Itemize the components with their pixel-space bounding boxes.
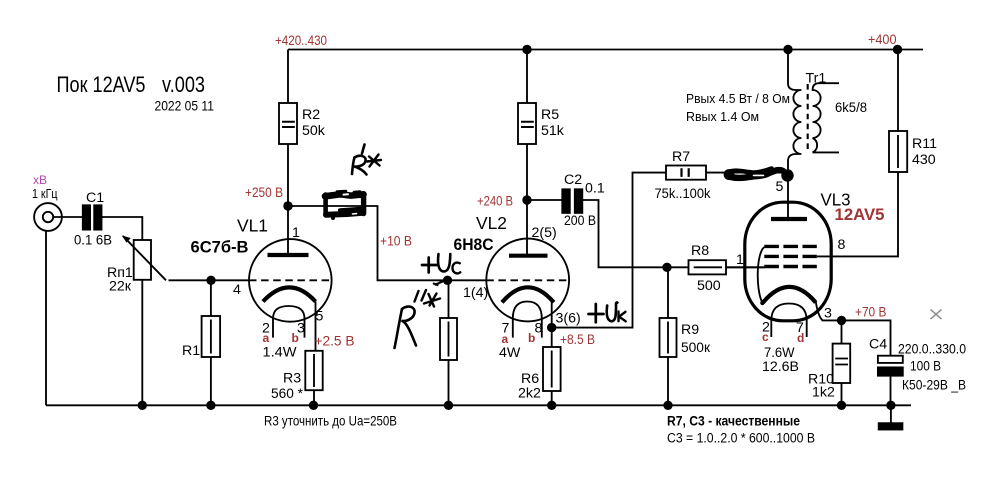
ground symbol	[879, 405, 903, 429]
resistor R5	[518, 50, 536, 201]
svg-text:Рвых 4.5 Вт / 8 Ом: Рвых 4.5 Вт / 8 Ом	[686, 91, 790, 106]
mark x (grey cross)	[931, 310, 942, 320]
handwritten scribble over anode wire (component placeholder)	[324, 191, 366, 220]
node +8.5V cathode VL2	[547, 323, 556, 332]
svg-text:100 В: 100 В	[910, 359, 941, 375]
svg-text:2022 05 11: 2022 05 11	[155, 98, 215, 114]
handwritten R'*	[352, 145, 381, 175]
svg-text:200 В: 200 В	[564, 213, 596, 229]
handwritten +Uk	[589, 302, 626, 322]
resistor R6	[543, 328, 561, 406]
svg-text:5: 5	[776, 179, 784, 195]
wire top supply rail	[288, 49, 923, 51]
svg-text:C4: C4	[869, 337, 887, 353]
svg-text:R9: R9	[681, 322, 699, 338]
svg-text:b: b	[528, 331, 535, 345]
capacitor C1	[83, 205, 102, 229]
resistor R3	[305, 351, 322, 406]
svg-text:R5: R5	[541, 107, 559, 123]
svg-text:8: 8	[838, 237, 846, 253]
transformer Tr1 primary	[788, 50, 801, 175]
junction R9 ground	[663, 401, 672, 410]
svg-text:22к: 22к	[109, 279, 132, 295]
svg-text:5: 5	[316, 309, 324, 325]
resistor R'' (grid leak)	[440, 280, 457, 405]
transformer Tr1 core	[807, 84, 809, 153]
handwritten R''*	[395, 290, 441, 348]
svg-text:1.4W: 1.4W	[263, 345, 298, 361]
tube VL3 12AV5	[745, 202, 842, 337]
svg-text:+70 В: +70 В	[855, 305, 886, 321]
svg-text:b: b	[292, 331, 299, 345]
junction Rp1 ground	[138, 401, 147, 410]
resistor R11	[889, 50, 907, 173]
svg-text:4: 4	[233, 282, 241, 298]
wire cathode node to C4	[842, 320, 891, 355]
svg-text:+250 В: +250 В	[245, 185, 283, 201]
svg-text:R3 уточнить до Ua=250В: R3 уточнить до Ua=250В	[264, 414, 397, 430]
svg-text:75k..100k: 75k..100k	[655, 186, 712, 202]
svg-text:500: 500	[697, 278, 721, 294]
wire VL1 anode to VL2 grid	[288, 206, 486, 280]
wire VL2 cathode to R7 (feedback)	[552, 173, 666, 328]
svg-text:Пок 12AV5: Пок 12AV5	[57, 72, 146, 97]
svg-text:Tr1: Tr1	[806, 71, 827, 87]
svg-text:+10 В: +10 В	[380, 234, 412, 250]
svg-text:+2.5 В: +2.5 В	[315, 334, 355, 350]
svg-text:c: c	[762, 330, 769, 344]
junction R8/R9	[662, 263, 671, 272]
svg-text:C2: C2	[564, 172, 582, 188]
transformer Tr1 secondary	[813, 83, 839, 152]
tube VL2 6N8S	[486, 200, 569, 338]
tube VL1 6S7b-V	[249, 206, 332, 351]
junction R'' ground	[444, 401, 453, 410]
resistor R8	[689, 260, 765, 274]
svg-text:v.003: v.003	[162, 72, 205, 97]
junction grid VL1	[206, 276, 215, 285]
resistor R7	[666, 166, 788, 180]
junction Tr1 top rail	[783, 45, 792, 54]
svg-text:R8: R8	[691, 243, 709, 259]
svg-text:6С7б-В: 6С7б-В	[191, 238, 249, 257]
svg-text:6Н8С: 6Н8С	[454, 235, 494, 254]
HANDWRITING	[324, 145, 794, 349]
svg-text:C1: C1	[86, 190, 104, 206]
resistor R2	[279, 50, 297, 207]
junction C4 ground rail	[886, 401, 895, 410]
svg-text:51k: 51k	[541, 123, 565, 139]
wire bottom ground rail	[46, 404, 911, 406]
wire VL3 grid pin 1 (from R8)	[726, 266, 765, 268]
svg-text:R7: R7	[672, 149, 690, 165]
junction R10 ground	[837, 401, 846, 410]
junction R11 top rail +400	[893, 45, 902, 54]
node +Uc	[443, 276, 452, 285]
svg-text:R11: R11	[912, 136, 937, 152]
svg-text:R1: R1	[182, 343, 200, 359]
svg-text:1k2: 1k2	[812, 385, 835, 401]
svg-text:8: 8	[535, 321, 543, 337]
node anode VL3 / Tr1	[783, 169, 792, 178]
svg-text:1: 1	[292, 225, 300, 241]
svg-text:0.1: 0.1	[585, 181, 605, 197]
svg-text:Rвых 1.4 Ом: Rвых 1.4 Ом	[686, 109, 759, 124]
svg-text:12AV5: 12AV5	[835, 205, 885, 224]
svg-text:R2: R2	[302, 107, 320, 123]
svg-text:VL1: VL1	[237, 216, 268, 236]
resistor R9	[660, 267, 677, 405]
potentiometer Rp1	[122, 236, 169, 406]
node +250V anode VL1	[283, 201, 292, 210]
svg-text:хВ: хВ	[33, 173, 47, 187]
svg-text:2(5): 2(5)	[532, 225, 557, 241]
svg-text:+420..430: +420..430	[275, 33, 327, 49]
svg-text:3(6): 3(6)	[556, 311, 581, 327]
svg-text:R7, C3 - качественные: R7, C3 - качественные	[667, 414, 800, 430]
junction R1 ground	[206, 401, 215, 410]
resistor R1	[202, 280, 221, 405]
svg-text:220.0..330.0: 220.0..330.0	[898, 342, 966, 358]
wire Rp1 bottom to ground rail	[141, 280, 143, 406]
svg-text:500к: 500к	[681, 340, 711, 356]
svg-text:1(4): 1(4)	[463, 285, 488, 301]
wire Rp1 wiper to grid node	[169, 279, 212, 281]
svg-text:0.1 6В: 0.1 6В	[74, 233, 112, 249]
svg-text:+240 В: +240 В	[477, 194, 513, 210]
wire jack to ground rail	[45, 231, 47, 405]
node +70V cathode VL3	[837, 316, 846, 325]
junction R3 ground	[309, 401, 318, 410]
capacitor C2	[527, 189, 689, 267]
wire jack to C1	[53, 216, 83, 218]
wire Tr1 to VL3 anode	[787, 174, 789, 217]
junction R6 ground	[547, 401, 556, 410]
handwritten +Uc	[422, 254, 460, 285]
svg-text:d: d	[797, 331, 804, 345]
wire VL3 screen pin 8 to R11	[817, 172, 898, 256]
svg-text:+8.5 В: +8.5 В	[560, 332, 595, 348]
svg-text:50k: 50k	[302, 123, 326, 139]
svg-text:C3 = 1.0..2.0 * 600..1000 В: C3 = 1.0..2.0 * 600..1000 В	[667, 431, 815, 447]
capacitor C4 electrolytic	[878, 356, 903, 406]
svg-text:+400: +400	[868, 32, 897, 48]
svg-text:1: 1	[736, 252, 744, 268]
resistor R10	[833, 320, 851, 405]
svg-text:430: 430	[912, 152, 936, 168]
svg-text:VL2: VL2	[476, 213, 507, 233]
svg-text:2k2: 2k2	[518, 386, 541, 402]
node +240V anode VL2	[522, 195, 531, 204]
svg-text:4W: 4W	[499, 345, 521, 361]
svg-text:6k5/8: 6k5/8	[835, 100, 867, 116]
svg-text:a: a	[502, 332, 509, 346]
svg-text:1 кГц: 1 кГц	[32, 187, 58, 201]
input jack XS1	[34, 203, 62, 231]
svg-text:3: 3	[824, 306, 832, 322]
svg-text:К50-29В _В: К50-29В _В	[902, 378, 966, 394]
svg-text:a: a	[263, 331, 270, 345]
svg-text:560 *: 560 *	[271, 386, 303, 402]
svg-text:R3: R3	[283, 371, 301, 387]
wire grid to VL1 pin 4	[211, 279, 249, 281]
handwritten squiggle (feedback wire emphasis)	[724, 169, 794, 182]
svg-text:12.6В: 12.6В	[762, 359, 799, 375]
wire C1 to Rp1	[102, 217, 143, 240]
junction R5 top rail	[522, 45, 531, 54]
